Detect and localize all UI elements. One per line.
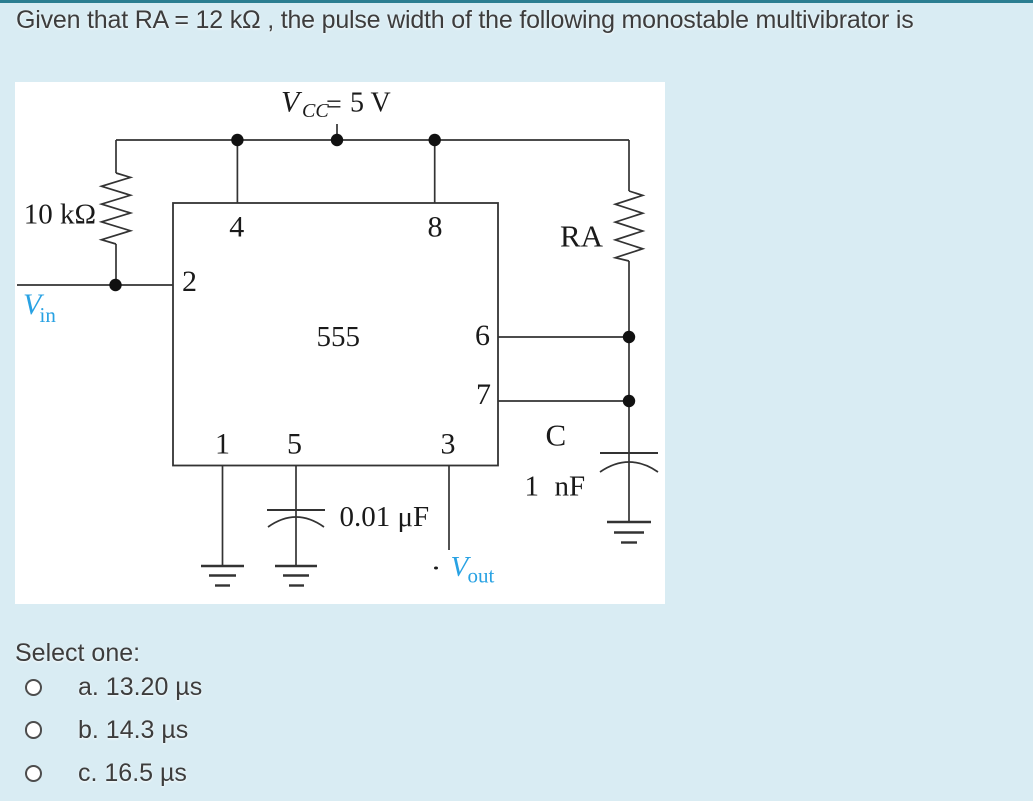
svg-text:2: 2 [182,265,197,298]
svg-text:555: 555 [317,321,361,353]
wire pin8 [434,140,436,203]
node dot before Vout [434,567,438,570]
resistor RA zigzag [615,191,642,261]
node dot pin4 rail [231,134,243,146]
svg-text:4: 4 [229,211,244,244]
svg-text:8: 8 [428,211,443,244]
wire Vin input [17,284,173,286]
capacitor C3 0.01uF plates [267,509,325,511]
wire top rail [116,139,629,141]
wire right rail [628,140,630,191]
resistor 10k zigzag [102,173,131,244]
svg-text:in: in [40,303,57,327]
wire Vcc tick [336,124,338,140]
svg-text:V: V [281,86,303,119]
node dot pin2 junction [109,279,121,291]
wire resistor bottom to node [115,244,117,285]
radio b [25,721,42,738]
radio a [25,679,42,696]
wire pin5 down [295,466,297,567]
select one prompt [15,639,140,668]
svg-text:5 V: 5 V [350,88,391,119]
node dot Vcc [331,134,343,146]
question text [16,6,914,35]
wire pin7 [498,400,629,402]
svg-text:out: out [468,564,495,588]
node dot pin6 [623,331,635,343]
wire pin6 [498,336,629,338]
circuit image box [15,82,665,604]
svg-text:RA: RA [560,219,604,254]
svg-text:7: 7 [476,378,491,411]
capacitor C plates [600,452,658,454]
wire pin1 down [222,466,224,567]
svg-text:=: = [326,90,342,121]
svg-text:3: 3 [441,428,456,461]
wire left drop to resistor [115,140,117,173]
svg-text:5: 5 [287,428,302,461]
svg-text:1: 1 [525,471,540,503]
node dot pin7 [623,395,635,407]
wire pin4 [236,140,238,203]
node dot pin8 rail [429,134,441,146]
svg-text:10 kΩ: 10 kΩ [24,199,96,231]
wire RA to cap C [628,261,630,522]
ground right [607,521,651,523]
top teal bar [0,0,1033,3]
svg-text:nF: nF [555,471,586,503]
radio c [25,765,42,782]
ground pin5 [275,565,317,567]
op-amp U1 555 IC box [173,203,498,466]
wire pin3 down [448,466,450,551]
svg-text:C: C [546,418,567,453]
svg-text:1: 1 [215,428,230,461]
svg-text:0.01 μF: 0.01 μF [340,501,430,533]
svg-text:6: 6 [475,319,490,352]
ground pin1 [201,565,244,567]
